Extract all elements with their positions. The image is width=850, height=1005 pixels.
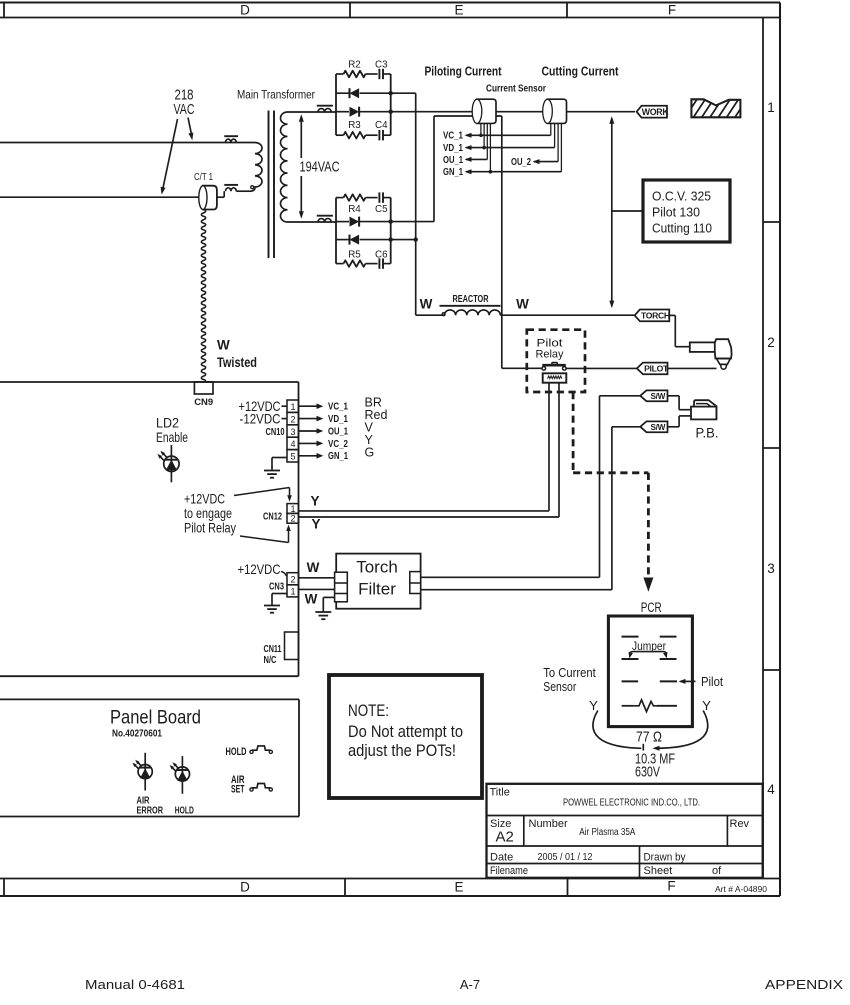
svg-text:Cutting 110: Cutting 110	[652, 221, 712, 236]
svg-text:R3: R3	[348, 120, 361, 131]
svg-text:PILOT: PILOT	[644, 364, 669, 374]
svg-text:SET: SET	[231, 784, 245, 796]
svg-text:2: 2	[767, 335, 775, 350]
svg-text:CN12: CN12	[263, 511, 282, 523]
svg-text:4: 4	[290, 439, 295, 449]
svg-text:CN10: CN10	[266, 427, 285, 438]
svg-text:+12VDC: +12VDC	[238, 561, 281, 577]
svg-text:Sensor: Sensor	[543, 679, 576, 694]
svg-text:CN3: CN3	[269, 581, 284, 593]
svg-text:P.B.: P.B.	[696, 426, 719, 441]
svg-text:Y: Y	[310, 494, 319, 509]
svg-text:Pilot 130: Pilot 130	[652, 205, 700, 220]
svg-text:Pilot: Pilot	[701, 674, 723, 689]
svg-text:G: G	[365, 446, 375, 460]
svg-text:APPENDIX: APPENDIX	[765, 977, 843, 992]
svg-text:O.C.V. 325: O.C.V. 325	[652, 189, 711, 204]
svg-text:Rev: Rev	[730, 818, 750, 830]
svg-text:CN11: CN11	[264, 644, 282, 655]
svg-text:N/C: N/C	[264, 655, 277, 666]
svg-text:Filter: Filter	[358, 580, 396, 599]
svg-text:3: 3	[290, 427, 295, 437]
svg-text:4: 4	[767, 782, 775, 797]
svg-text:Manual 0-4681: Manual 0-4681	[85, 977, 185, 992]
svg-text:1: 1	[290, 402, 295, 412]
svg-text:Main Transformer: Main Transformer	[237, 88, 315, 102]
svg-text:Piloting Current: Piloting Current	[425, 64, 502, 79]
svg-text:3: 3	[767, 561, 775, 576]
svg-text:To Current: To Current	[543, 665, 596, 680]
svg-text:Twisted: Twisted	[217, 355, 257, 370]
svg-text:WORK: WORK	[642, 107, 670, 117]
svg-text:VAC: VAC	[174, 101, 195, 118]
svg-text:GN_1: GN_1	[328, 451, 348, 462]
svg-text:2: 2	[290, 575, 295, 585]
svg-text:Title: Title	[490, 787, 510, 799]
svg-text:E: E	[454, 880, 463, 895]
svg-text:Filename: Filename	[490, 865, 528, 877]
svg-text:77 Ω: 77 Ω	[636, 729, 662, 746]
svg-text:Pilot Relay: Pilot Relay	[184, 520, 236, 536]
svg-text:GN_1: GN_1	[443, 167, 463, 178]
svg-text:POWWEL ELECTRONIC IND.CO., LTD: POWWEL ELECTRONIC IND.CO., LTD.	[563, 798, 700, 809]
svg-text:W: W	[516, 297, 529, 312]
svg-text:C3: C3	[375, 59, 388, 70]
svg-text:-12VDC: -12VDC	[240, 410, 281, 426]
svg-text:W: W	[305, 592, 318, 607]
svg-text:1: 1	[290, 504, 295, 514]
svg-text:Do Not attempt to: Do Not attempt to	[348, 723, 463, 741]
svg-text:ERROR: ERROR	[137, 805, 164, 817]
svg-text:Current Sensor: Current Sensor	[486, 84, 546, 95]
svg-text:VC_1: VC_1	[443, 131, 463, 142]
svg-text:Panel Board: Panel Board	[110, 707, 201, 729]
svg-text:1: 1	[290, 587, 295, 597]
svg-text:Y: Y	[311, 517, 320, 532]
svg-text:2: 2	[290, 514, 295, 524]
svg-text:194VAC: 194VAC	[300, 160, 340, 176]
svg-text:Cutting Current: Cutting Current	[542, 64, 619, 79]
svg-text:VD_1: VD_1	[328, 414, 348, 425]
svg-text:D: D	[240, 3, 250, 18]
svg-text:REACTOR: REACTOR	[453, 294, 490, 305]
svg-text:F: F	[668, 3, 676, 18]
svg-text:Art # A-04890: Art # A-04890	[715, 884, 767, 894]
svg-text:VC_2: VC_2	[328, 439, 348, 450]
svg-text:No.40270601: No.40270601	[112, 728, 162, 740]
svg-text:1: 1	[767, 100, 775, 115]
svg-text:5: 5	[290, 452, 295, 462]
svg-text:C/T 1: C/T 1	[194, 172, 213, 183]
svg-text:R2: R2	[348, 59, 361, 70]
svg-text:Air Plasma 35A: Air Plasma 35A	[579, 827, 635, 838]
svg-text:S/W: S/W	[651, 423, 666, 432]
svg-text:C6: C6	[375, 250, 388, 261]
svg-text:A-7: A-7	[460, 977, 480, 992]
svg-text:PCR: PCR	[641, 600, 662, 615]
svg-text:S/W: S/W	[651, 392, 666, 401]
svg-text:Relay: Relay	[536, 349, 564, 361]
svg-text:W: W	[307, 560, 320, 575]
svg-text:NOTE:: NOTE:	[348, 702, 389, 720]
svg-text:Number: Number	[529, 818, 568, 830]
svg-text:of: of	[712, 865, 722, 877]
svg-text:W: W	[217, 338, 230, 353]
svg-text:Enable: Enable	[156, 429, 188, 445]
svg-text:D: D	[240, 880, 250, 895]
svg-text:F: F	[667, 879, 675, 894]
svg-text:OU_2: OU_2	[511, 157, 531, 168]
svg-text:TORCH: TORCH	[641, 311, 670, 321]
svg-text:OU_1: OU_1	[328, 426, 348, 437]
svg-text:C4: C4	[375, 120, 388, 131]
svg-text:CN9: CN9	[194, 397, 213, 408]
svg-text:2005 / 01 / 12: 2005 / 01 / 12	[538, 852, 593, 863]
svg-text:Drawn by: Drawn by	[644, 852, 686, 864]
svg-text:A2: A2	[496, 829, 514, 846]
svg-text:Date: Date	[490, 852, 513, 864]
svg-text:E: E	[454, 3, 463, 18]
svg-text:HOLD: HOLD	[226, 746, 247, 758]
svg-text:adjust the POTs!: adjust the POTs!	[348, 742, 456, 760]
svg-text:2: 2	[290, 414, 295, 424]
svg-text:Sheet: Sheet	[644, 865, 673, 877]
svg-text:HOLD: HOLD	[175, 805, 194, 817]
svg-text:R4: R4	[348, 204, 361, 215]
svg-text:Torch: Torch	[356, 558, 398, 577]
svg-text:VC_1: VC_1	[328, 402, 348, 413]
svg-text:C5: C5	[375, 204, 388, 215]
svg-text:OU_1: OU_1	[443, 155, 463, 166]
svg-text:R5: R5	[348, 250, 361, 261]
svg-text:W: W	[420, 297, 433, 312]
svg-text:630V: 630V	[635, 764, 660, 781]
svg-text:VD_1: VD_1	[443, 143, 463, 154]
